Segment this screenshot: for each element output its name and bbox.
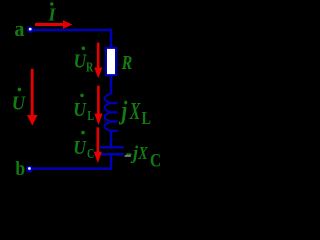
svg-text:U: U <box>73 99 87 121</box>
svg-text:R: R <box>86 59 94 75</box>
svg-text:I: I <box>48 5 57 25</box>
dot of UC <box>81 131 85 135</box>
capacitor top plate <box>100 146 124 149</box>
voltage arrow UL <box>97 86 100 114</box>
svg-text:X: X <box>129 99 141 125</box>
wire: top from node a to corner and down to resistor <box>33 30 111 48</box>
svg-text:C: C <box>87 146 94 162</box>
node b <box>26 166 33 173</box>
dot of UL <box>80 94 84 98</box>
current arrow I <box>35 23 63 26</box>
svg-text:X: X <box>138 144 149 163</box>
svg-text:a: a <box>14 16 25 41</box>
svg-text:L: L <box>142 110 152 129</box>
svg-text:C: C <box>150 150 161 171</box>
dot of U <box>18 88 22 92</box>
svg-text:L: L <box>87 108 94 124</box>
dot of UR <box>82 47 86 51</box>
svg-text:U: U <box>73 137 87 159</box>
wire: resistor to inductor <box>110 76 113 95</box>
wire: bottom from capacitor down and left to node b <box>33 155 111 169</box>
capacitor bottom plate <box>100 153 124 156</box>
node a <box>27 26 34 33</box>
inductor L coil <box>105 94 117 131</box>
dot of I <box>50 2 54 6</box>
svg-text:R: R <box>121 51 133 73</box>
voltage arrow UC <box>97 127 100 152</box>
svg-text:b: b <box>15 158 25 180</box>
minus light fringe <box>125 155 131 156</box>
voltage arrow U (port) <box>31 69 34 116</box>
wire: inductor to capacitor <box>110 131 113 148</box>
svg-text:U: U <box>12 93 26 115</box>
label -jXC: minus <box>126 153 131 155</box>
voltage arrow UR <box>97 43 100 68</box>
resistor R body <box>106 48 116 75</box>
